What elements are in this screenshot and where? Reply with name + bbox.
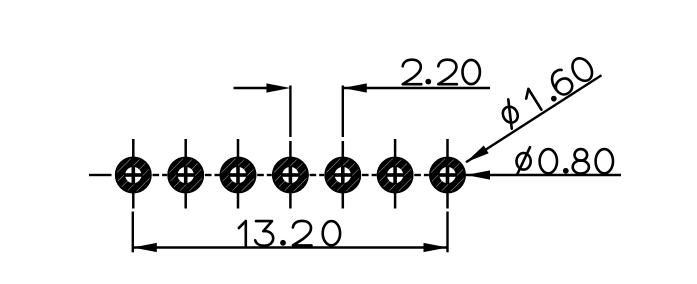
dimension 2.20 extension lines bbox=[290, 86, 342, 138]
leader diameter 1.60: shaft and arrow bbox=[466, 75, 602, 162]
dimension 13.20 extension lines bbox=[133, 212, 448, 253]
dimension text 13.20 bbox=[239, 221, 340, 246]
leader diameter 0.80: shaft and arrow bbox=[466, 174, 621, 176]
centerline dashes between pads bbox=[153, 174, 429, 176]
pad 5 bbox=[324, 157, 361, 194]
dimension text 2.20 bbox=[403, 60, 480, 85]
dimension 13.20 line and arrows bbox=[133, 246, 448, 248]
pad 4 bbox=[272, 157, 309, 194]
dimension 2.20 right shaft and arrow bbox=[343, 87, 490, 89]
leader text diameter 1.60 (rotated) bbox=[497, 53, 597, 129]
pad 7 bbox=[429, 157, 466, 194]
vertical centerlines of pads bbox=[133, 139, 447, 209]
leader text diameter 0.80 bbox=[517, 147, 614, 174]
dimension 2.20 left shaft and arrow bbox=[234, 87, 269, 89]
pad 3 bbox=[220, 157, 257, 194]
horizontal centerline left stub bbox=[89, 174, 112, 176]
pad 1 bbox=[115, 157, 152, 194]
pad 2 bbox=[167, 157, 204, 194]
pad 6 bbox=[377, 157, 414, 194]
